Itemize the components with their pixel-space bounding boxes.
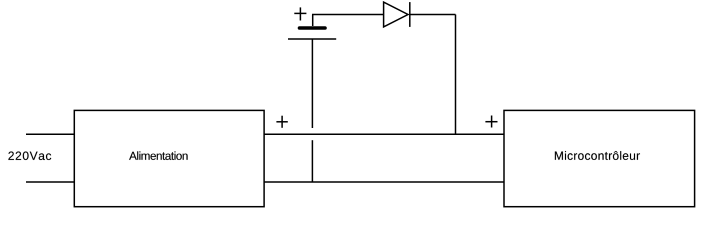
wire W2 left bottom input (26, 181, 74, 183)
wire W5 battery positive up lead (312, 15, 314, 27)
wire W7 diode cathode to corner (410, 14, 456, 16)
wire W3 top bus (Alimentation to Microcontroleur) (264, 133, 504, 135)
label Microcontroleur (555, 151, 640, 160)
battery negative plate (thin) (288, 38, 336, 40)
label 220Vac (8, 152, 51, 161)
wire W4 bottom bus (Alimentation to Microcontroleur) (264, 181, 504, 183)
wire W6 top horizontal to diode anode (312, 14, 384, 16)
label Alimentation (129, 151, 188, 160)
plus sign at battery positive terminal (294, 7, 306, 20)
plus sign near Alimentation output (276, 116, 287, 128)
wire W10 battery negative down lead (below crossing gap, to bottom bus) (311, 140, 313, 182)
block Microcontroleur (microcontroller box) (504, 110, 695, 206)
block Alimentation (power supply box) (74, 110, 264, 206)
plus sign near Microcontroleur input (485, 116, 497, 128)
battery B1 (288, 28, 336, 39)
wire W8 right vertical drop to top bus (455, 15, 457, 135)
diode cathode bar (409, 2, 411, 27)
diode triangle (anode) (384, 2, 408, 27)
diode D1 (384, 2, 410, 27)
wire W1 left top input (26, 133, 74, 135)
wire W9 battery negative down lead (above crossing gap) (311, 39, 313, 128)
battery positive plate (thick) (300, 26, 326, 30)
